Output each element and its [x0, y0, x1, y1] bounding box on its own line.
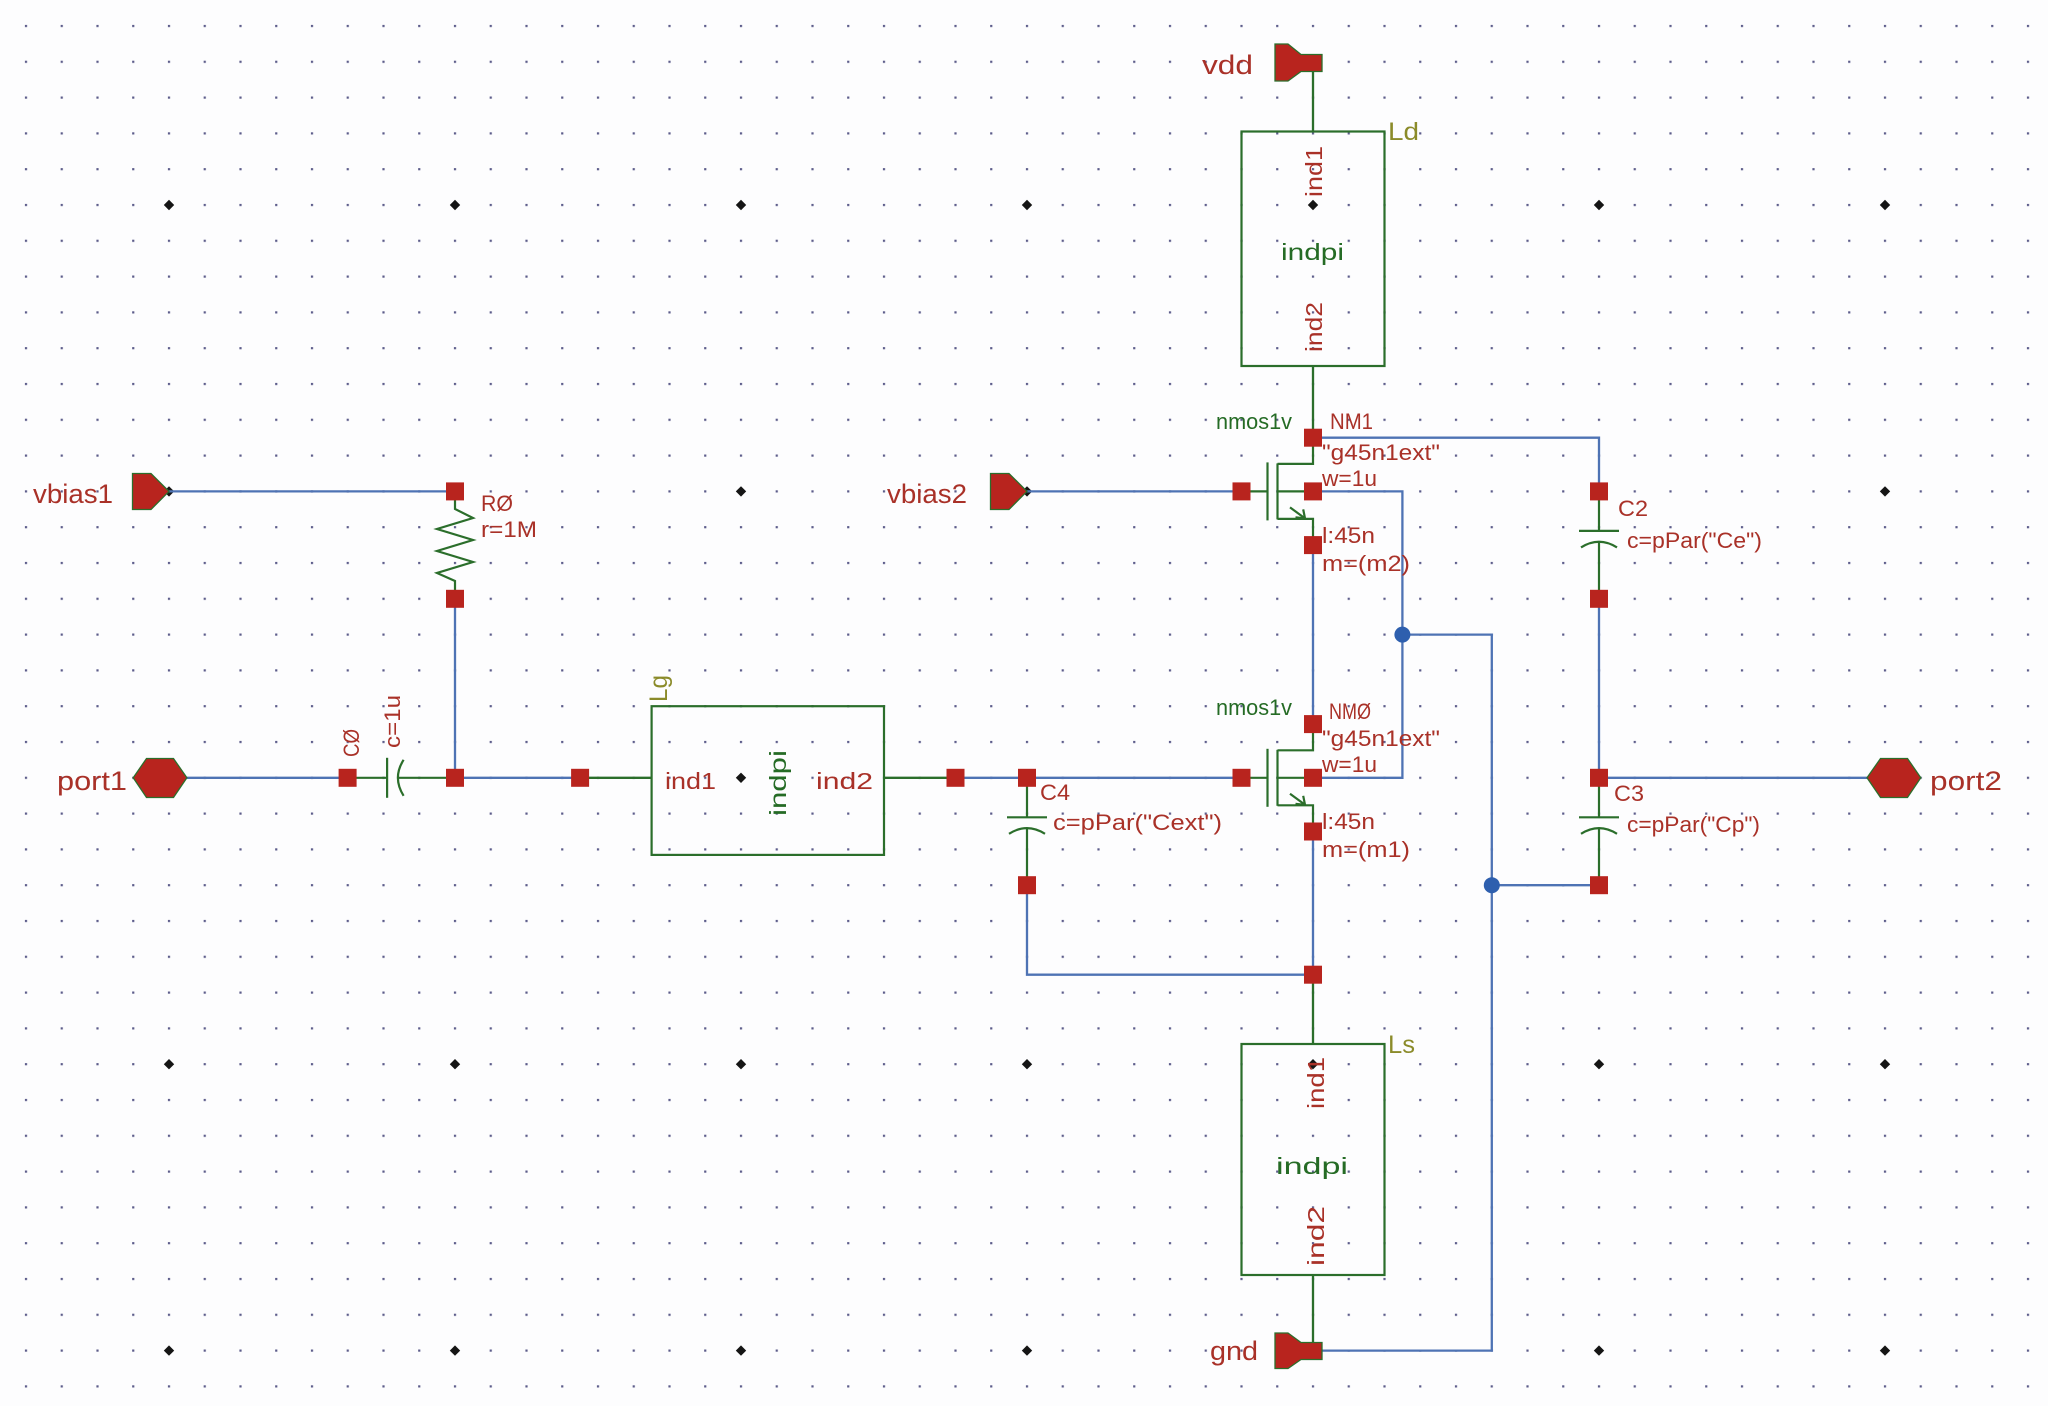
svg-text:nmos1v: nmos1v [1216, 695, 1292, 720]
svg-text:C4: C4 [1040, 780, 1070, 805]
wire vbias1 to R0 [169, 490, 455, 492]
svg-text:m=(m2): m=(m2) [1322, 551, 1410, 576]
svg-text:ind1: ind1 [665, 768, 716, 794]
wire Lg ind2 lead [884, 777, 956, 779]
wire NM0 bulk to node A [1313, 635, 1402, 778]
capacitor C2 [1579, 491, 1619, 598]
wire node B to C3 bottom [1492, 884, 1599, 886]
pin square NM0 drain [1304, 715, 1322, 733]
svg-text:indpi: indpi [1281, 239, 1344, 265]
wire Ls to gnd [1312, 1275, 1314, 1343]
wire port1 to C0 [187, 777, 348, 779]
svg-text:m=(m1): m=(m1) [1322, 837, 1410, 862]
input pin vbias1 [133, 474, 170, 510]
junction node B [1484, 877, 1500, 893]
pin square NM1 bulk [1304, 482, 1322, 500]
svg-text:C2: C2 [1618, 496, 1648, 521]
svg-text:gnd: gnd [1210, 1336, 1258, 1366]
capacitor C0 [348, 758, 455, 798]
svg-text:port1: port1 [57, 766, 127, 796]
ground pin gnd [1275, 1333, 1322, 1369]
svg-text:RØ: RØ [481, 491, 513, 516]
wire node B to gnd [1322, 885, 1492, 1350]
pin square C2 top [1590, 482, 1608, 500]
pin square C3 top [1590, 769, 1608, 787]
pin square NM0 source [1304, 823, 1322, 841]
svg-text:indpi: indpi [765, 750, 791, 816]
svg-text:ind2: ind2 [816, 768, 873, 794]
svg-text:indpi: indpi [1276, 1153, 1348, 1179]
svg-text:w=1u: w=1u [1321, 466, 1377, 491]
pin square C0 right / node [446, 769, 464, 787]
wire vbias2 to NM1 gate [1027, 490, 1242, 492]
wire Lg ind2 to NM0 gate (through C4 node) [956, 777, 1242, 779]
wire node A to node B [1402, 635, 1491, 886]
wire NM1 drain to C2 [1313, 438, 1599, 492]
svg-text:c=pPar("Ce"): c=pPar("Ce") [1627, 528, 1762, 553]
pin square R0 top [446, 482, 464, 500]
svg-text:ind2: ind2 [1301, 302, 1327, 352]
wire node to Ls [1312, 975, 1314, 1044]
input pin vbias2 [991, 474, 1028, 510]
pin square C4 bottom [1018, 876, 1036, 894]
svg-text:c=pPar("Cp"): c=pPar("Cp") [1627, 812, 1760, 837]
wire C0 to Lg ind1 [455, 777, 580, 779]
wire C3 top to port2 [1599, 777, 1867, 779]
pin square Lg ind1 [571, 769, 589, 787]
pin square NM1 drain [1304, 429, 1322, 447]
svg-text:c=pPar("Cext"): c=pPar("Cext") [1053, 810, 1222, 835]
svg-text:"g45n1ext": "g45n1ext" [1322, 726, 1440, 751]
svg-text:NM1: NM1 [1330, 409, 1373, 434]
capacitor C3 [1579, 778, 1619, 885]
svg-text:Lg: Lg [645, 675, 673, 702]
pin square Lg ind2 [947, 769, 965, 787]
transistor NM1 (nmos1v) [1242, 437, 1314, 545]
pin square C2 bottom [1590, 590, 1608, 608]
inductor Ld (indpi) box [1242, 132, 1385, 367]
pin square C0 left [339, 769, 357, 787]
pin square C3 bottom [1590, 876, 1608, 894]
svg-text:vbias2: vbias2 [887, 479, 967, 509]
svg-text:"g45n1ext": "g45n1ext" [1322, 440, 1440, 465]
svg-text:C3: C3 [1614, 781, 1644, 806]
pin square NM0 gate [1233, 769, 1251, 787]
svg-text:c=1u: c=1u [380, 695, 405, 748]
pin square source node [1304, 966, 1322, 984]
svg-text:CØ: CØ [339, 729, 364, 757]
svg-text:l:45n: l:45n [1322, 809, 1375, 834]
wire NM1 source to NM0 drain [1312, 545, 1314, 724]
inout pin port2 [1867, 759, 1921, 798]
wire NM1 bulk to node A [1313, 491, 1402, 634]
wire NM0 source to node [1312, 832, 1314, 975]
svg-text:w=1u: w=1u [1321, 752, 1377, 777]
resistor R0 [437, 491, 473, 598]
svg-text:nmos1v: nmos1v [1216, 409, 1292, 434]
inductor Ls (indpi) box [1242, 1044, 1385, 1275]
pin square NM1 source [1304, 536, 1322, 554]
junction node A [1394, 627, 1410, 643]
power pin vdd [1275, 44, 1322, 81]
wire Lg ind1 lead [580, 777, 652, 779]
svg-text:vdd: vdd [1202, 50, 1253, 80]
inductor Lg (indpi) box [652, 706, 884, 855]
wire Ld to NM1 drain [1312, 366, 1314, 438]
transistor NM0 (nmos1v) [1242, 724, 1314, 832]
svg-text:ind2: ind2 [1303, 1206, 1329, 1266]
wire vdd to Ld [1312, 70, 1314, 132]
wire C2 bottom to C3 top [1598, 599, 1600, 778]
svg-text:vbias1: vbias1 [33, 479, 113, 509]
svg-text:ind1: ind1 [1303, 1057, 1329, 1109]
svg-text:l:45n: l:45n [1322, 523, 1375, 548]
wire C4 bottom to node [1027, 885, 1313, 975]
svg-text:port2: port2 [1930, 766, 2002, 796]
svg-text:Ld: Ld [1388, 118, 1419, 146]
wire R0 bottom to port1 net [454, 599, 456, 778]
pin square C4 top [1018, 769, 1036, 787]
pin square NM1 gate [1233, 482, 1251, 500]
svg-text:r=1M: r=1M [481, 517, 537, 542]
svg-text:NMØ: NMØ [1329, 699, 1371, 724]
svg-text:ind1: ind1 [1301, 146, 1327, 197]
inout pin port1 [133, 759, 187, 798]
pin square R0 bottom [446, 590, 464, 608]
capacitor C4 [1007, 778, 1047, 885]
pin square NM0 bulk [1304, 769, 1322, 787]
svg-text:Ls: Ls [1388, 1031, 1415, 1059]
